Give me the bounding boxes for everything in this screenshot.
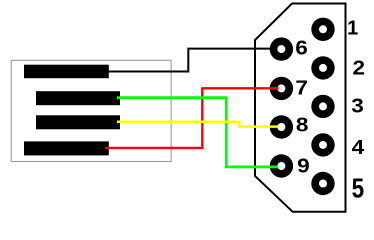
svg-text:1: 1 bbox=[347, 17, 358, 39]
connector J2 body (DB9 shell) bbox=[255, 4, 346, 212]
pin 9 bbox=[270, 154, 293, 177]
svg-text:3: 3 bbox=[351, 95, 364, 117]
wire green: blade2 to pin 9 bbox=[117, 98, 278, 167]
svg-text:5: 5 bbox=[352, 173, 365, 204]
wire yellow: blade3 to pin 8 bbox=[117, 122, 278, 127]
pin blade 1 of plug bbox=[24, 65, 109, 79]
pin 8 bbox=[270, 115, 293, 138]
svg-text:4: 4 bbox=[352, 136, 365, 158]
pin 3 bbox=[311, 95, 334, 118]
svg-text:9: 9 bbox=[297, 155, 310, 177]
wire black: blade1 to pin 6 bbox=[105, 49, 276, 72]
pin 7 bbox=[270, 77, 293, 100]
svg-text:2: 2 bbox=[353, 57, 366, 79]
pin 5 bbox=[311, 172, 334, 195]
wire red: blade4 to pin 7 bbox=[105, 88, 279, 148]
svg-text:8: 8 bbox=[296, 114, 309, 136]
pin blade 2 of plug bbox=[36, 91, 120, 105]
pin blade 4 of plug bbox=[24, 141, 109, 155]
connector J1 body (left plug) bbox=[11, 60, 171, 161]
pin blade 3 of plug bbox=[36, 115, 120, 129]
pin 1 bbox=[311, 18, 334, 41]
svg-text:7: 7 bbox=[295, 77, 308, 99]
pin 2 bbox=[311, 56, 334, 79]
pin 6 bbox=[270, 37, 293, 60]
svg-text:6: 6 bbox=[295, 37, 308, 59]
pin 4 bbox=[311, 133, 334, 156]
